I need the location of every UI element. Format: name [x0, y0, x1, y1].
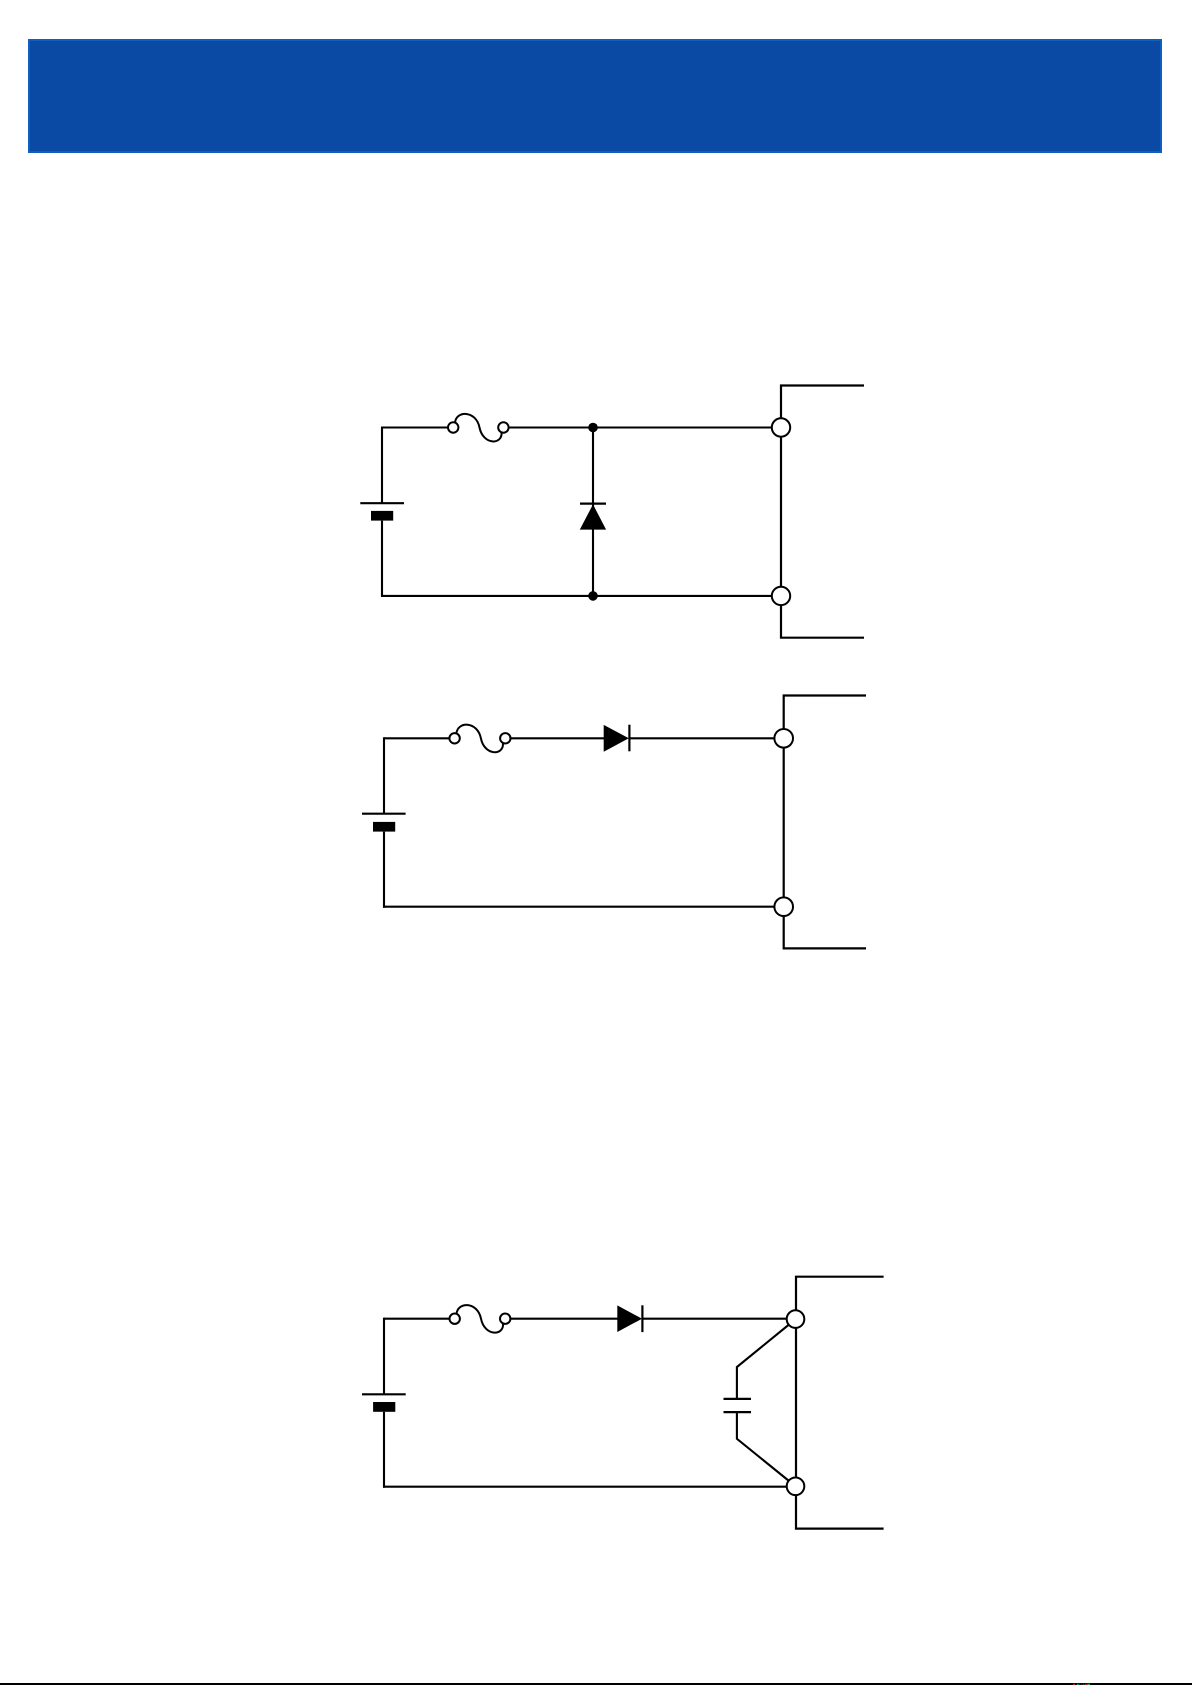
battery BT3: [362, 1394, 406, 1412]
load bracket 3: [796, 1277, 884, 1529]
wire top right: [642, 1318, 787, 1320]
wire left vertical lower: [381, 521, 383, 597]
wire top right of fuse: [509, 426, 772, 428]
diode D1 branch wire: [592, 428, 594, 596]
diode D2: [604, 725, 630, 752]
diode D3: [617, 1305, 642, 1332]
terminal T3: [774, 729, 793, 748]
terminal T2: [772, 587, 790, 605]
wire top middle: [510, 1318, 617, 1320]
footer rule: [0, 1683, 1192, 1685]
battery BT2: [362, 814, 406, 832]
wire top right: [629, 737, 774, 739]
wire left vertical upper: [383, 737, 385, 813]
wire bottom: [381, 595, 772, 597]
wire top (battery to terminal): [382, 426, 448, 428]
terminal T5: [787, 1310, 805, 1328]
fuse F2: [449, 725, 510, 753]
wire bottom: [383, 1486, 787, 1488]
terminal T1: [772, 418, 790, 436]
capacitor C1 lead lower: [737, 1412, 792, 1483]
load bracket 1: [781, 386, 864, 638]
wire left vertical lower: [383, 1412, 385, 1488]
capacitor C1: [724, 1399, 752, 1412]
terminal T6: [787, 1478, 805, 1496]
node junction bottom: [588, 591, 598, 601]
title banner: [29, 40, 1161, 152]
fuse F3: [450, 1305, 511, 1333]
load bracket 2: [784, 696, 866, 949]
wire bottom: [383, 906, 775, 908]
wire top left: [384, 737, 449, 739]
wire left vertical lower: [383, 832, 385, 908]
footer page-number remnant: [1073, 1684, 1090, 1685]
fuse F1: [448, 414, 509, 442]
battery BT1: [360, 503, 404, 520]
terminal T4: [774, 897, 793, 916]
wire left vertical upper: [383, 1318, 385, 1395]
wire top middle: [511, 737, 605, 739]
wire top left: [384, 1318, 450, 1320]
wire left vertical upper: [381, 427, 383, 504]
node junction top: [588, 423, 598, 433]
capacitor C1 lead upper: [737, 1323, 792, 1399]
diode D1: [580, 504, 606, 530]
